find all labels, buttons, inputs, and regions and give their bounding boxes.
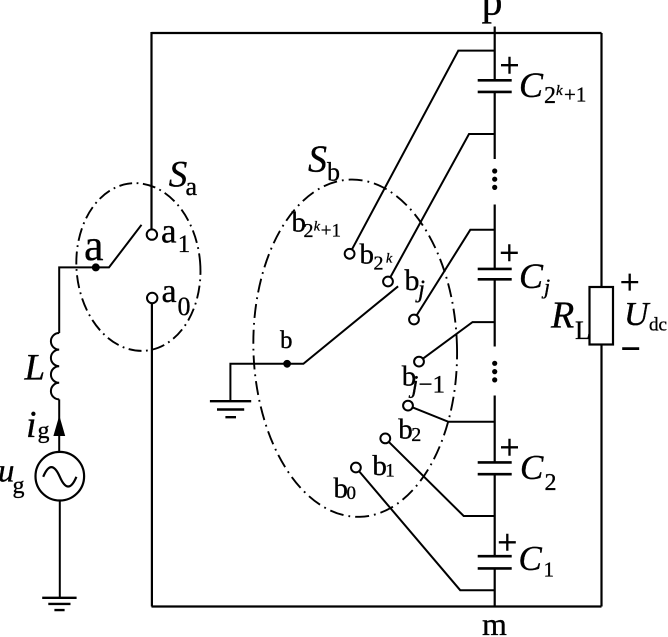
contact bj [409, 315, 419, 325]
svg-text:U: U [624, 296, 651, 333]
node b dot [283, 360, 291, 368]
wire stack segment 5 [494, 396, 496, 463]
capacitor C2 plates [478, 461, 512, 464]
capacitor C2k+1 plates [478, 79, 512, 82]
svg-text:g: g [13, 473, 25, 499]
svg-text:b: b [280, 327, 293, 354]
node a dot [92, 263, 100, 271]
wire tap b2k to stack [388, 134, 495, 282]
svg-text:C: C [519, 256, 544, 296]
svg-text:2: 2 [411, 424, 421, 446]
wire right edge upper [600, 33, 602, 287]
contact a1 [147, 229, 157, 239]
svg-text:1: 1 [178, 231, 191, 258]
svg-text:b: b [360, 239, 375, 271]
ground (source) [42, 598, 76, 610]
svg-text:S: S [308, 139, 327, 181]
wire a0 to bottom rail [151, 303, 153, 607]
inductor L coil [51, 333, 59, 399]
contact b2k [383, 277, 393, 287]
wire tap bj-1 to stack [419, 322, 495, 362]
svg-text:0: 0 [178, 292, 191, 321]
wire stack segment 4 [494, 280, 496, 347]
wire stack segment 3 [494, 205, 496, 269]
svg-text:2: 2 [304, 220, 314, 242]
svg-text:C: C [520, 448, 544, 487]
wire left edge top to a1 [150, 32, 152, 229]
svg-text:a: a [84, 221, 104, 270]
plus sign Udc [621, 274, 638, 291]
svg-text:C: C [519, 539, 543, 578]
switch arm Sb [287, 286, 398, 364]
contact b0 [351, 463, 361, 473]
wire stack segment 7 [494, 569, 496, 607]
svg-text:L: L [575, 316, 591, 345]
svg-text:i: i [26, 404, 37, 446]
wire bottom rail m [152, 605, 602, 607]
svg-text:k: k [314, 220, 321, 235]
plus sign C2k+1 [501, 57, 518, 74]
wire tap b2 to stack [408, 406, 495, 422]
svg-text:k: k [386, 252, 393, 267]
svg-text:a: a [162, 273, 177, 310]
svg-text:1: 1 [385, 461, 395, 482]
minus sign Udc [622, 347, 639, 350]
capacitor C1 plates [478, 555, 512, 558]
svg-text:a: a [186, 172, 198, 201]
wire stack segment 1 [494, 33, 496, 80]
wire tap bj to stack [414, 230, 495, 320]
svg-text:2: 2 [374, 253, 384, 275]
svg-text:p: p [482, 0, 503, 25]
svg-text:R: R [550, 295, 574, 337]
ellipsis dots upper [492, 168, 497, 190]
wire stack segment 2 [494, 93, 496, 160]
svg-text:1: 1 [544, 558, 555, 582]
current ig arrow [53, 416, 65, 437]
wire node a feed [59, 267, 96, 333]
svg-text:C: C [519, 65, 544, 105]
plus sign Cj [501, 244, 518, 261]
wire stack segment 6 [494, 475, 496, 556]
switch Sb boundary [249, 177, 462, 520]
svg-text:+1: +1 [321, 220, 341, 241]
svg-text:b: b [327, 158, 340, 187]
wire node b feed [230, 364, 287, 401]
svg-text:k: k [556, 83, 563, 99]
svg-text:a: a [161, 212, 177, 251]
resistor RL box [590, 287, 614, 345]
wire inductor to source [58, 399, 60, 452]
contact b2k+1 [345, 249, 355, 259]
contact b1 [380, 434, 390, 444]
wire top rail p [152, 32, 602, 34]
ellipsis dots lower [492, 361, 497, 383]
wire tap b0 to stack [356, 468, 495, 591]
wire tap b2k+1 to stack [350, 51, 495, 254]
plus sign C1 [499, 534, 516, 551]
wire tap b1 to stack [385, 438, 494, 516]
sine wave [43, 467, 76, 486]
wire right edge lower [600, 345, 602, 607]
contact bj-1 [414, 357, 424, 367]
switch arm Sa [96, 225, 142, 268]
svg-text:g: g [38, 418, 50, 444]
svg-text:+1: +1 [564, 83, 586, 107]
contact a0 [147, 293, 157, 303]
switch Sa boundary [70, 178, 207, 356]
wire source to ground [59, 501, 61, 598]
contact b2 [403, 401, 413, 411]
svg-text:L: L [24, 348, 46, 389]
svg-text:m: m [482, 606, 507, 637]
capacitor Cj plates [478, 268, 512, 271]
svg-text:0: 0 [347, 483, 357, 504]
svg-text:2: 2 [545, 470, 557, 496]
ac source ug [36, 452, 85, 501]
svg-text:2: 2 [544, 83, 556, 109]
svg-text:j−1: j−1 [408, 372, 445, 399]
svg-text:dc: dc [649, 315, 667, 336]
plus sign C2 [501, 439, 518, 456]
node p stub [494, 27, 496, 34]
ground (node b) [210, 401, 251, 417]
